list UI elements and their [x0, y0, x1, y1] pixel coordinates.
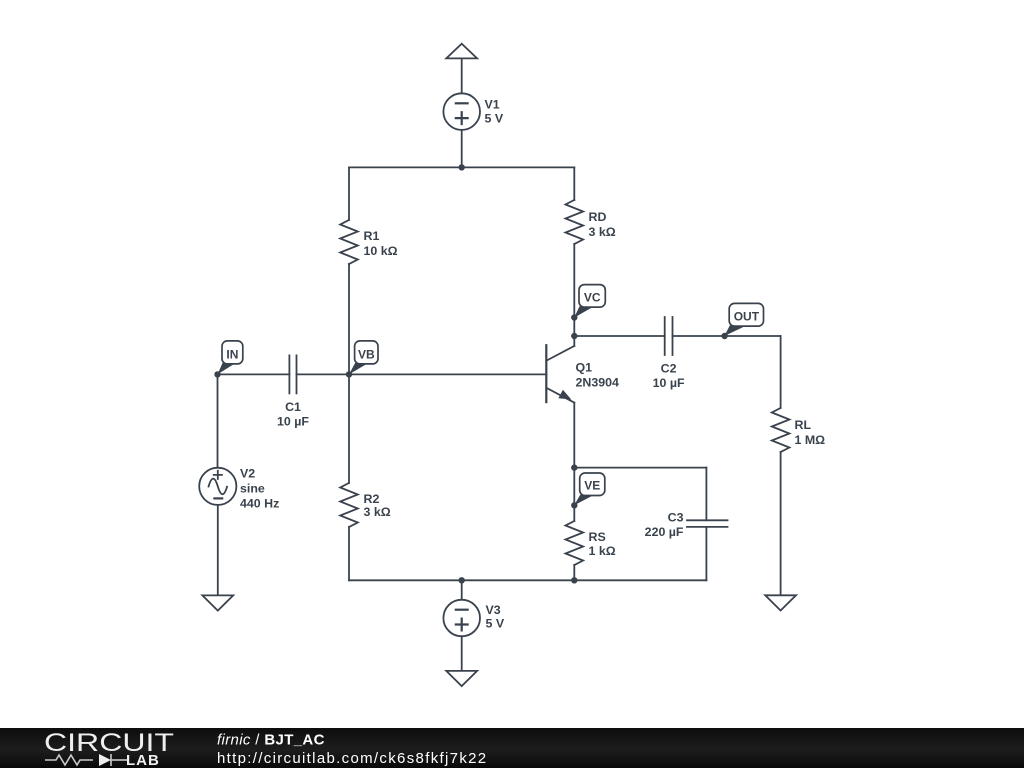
svg-text:V2: V2	[240, 467, 255, 481]
svg-text:440 Hz: 440 Hz	[240, 497, 279, 511]
svg-text:VB: VB	[358, 347, 375, 361]
svg-text:3 kΩ: 3 kΩ	[364, 505, 391, 519]
svg-text:LAB: LAB	[126, 752, 160, 768]
svg-text:10 µF: 10 µF	[277, 415, 309, 429]
svg-text:C1: C1	[285, 400, 301, 414]
svg-text:R2: R2	[364, 492, 380, 506]
svg-text:http://circuitlab.com/ck6s8fkf: http://circuitlab.com/ck6s8fkfj7k22	[217, 750, 487, 767]
svg-text:sine: sine	[240, 482, 265, 496]
svg-text:V3: V3	[486, 603, 501, 617]
svg-text:1 MΩ: 1 MΩ	[795, 433, 826, 447]
svg-text:3 kΩ: 3 kΩ	[589, 225, 616, 239]
svg-text:Q1: Q1	[576, 360, 593, 374]
svg-text:IN: IN	[226, 347, 238, 361]
svg-text:V1: V1	[485, 98, 500, 112]
svg-text:2N3904: 2N3904	[576, 376, 620, 390]
svg-text:220 µF: 220 µF	[645, 525, 684, 539]
svg-text:RS: RS	[589, 530, 606, 544]
svg-text:VC: VC	[584, 290, 601, 304]
svg-text:VE: VE	[584, 479, 600, 493]
svg-text:OUT: OUT	[734, 309, 760, 323]
svg-text:RD: RD	[589, 210, 607, 224]
svg-text:C2: C2	[661, 362, 677, 376]
svg-text:10 µF: 10 µF	[653, 376, 685, 390]
svg-text:firnic / BJT_AC: firnic / BJT_AC	[217, 731, 325, 748]
svg-text:R1: R1	[364, 229, 380, 243]
svg-text:RL: RL	[795, 418, 812, 432]
svg-text:5 V: 5 V	[486, 617, 505, 631]
svg-text:1 kΩ: 1 kΩ	[589, 544, 616, 558]
svg-text:10 kΩ: 10 kΩ	[364, 244, 398, 258]
svg-text:C3: C3	[668, 511, 684, 525]
svg-text:5 V: 5 V	[485, 112, 504, 126]
